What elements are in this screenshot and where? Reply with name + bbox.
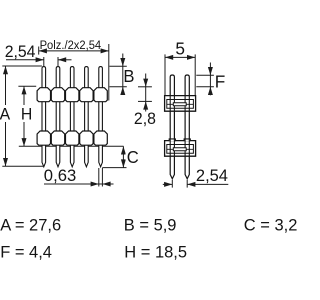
svg-text:B = 5,9: B = 5,9 [124,215,177,234]
dimension 2,54 side: extension lines [171,180,173,188]
svg-text:B: B [123,67,134,86]
dimension 0,63: dimension line with outside arrows [44,183,114,185]
insulator body bottom row #1 [37,131,50,145]
insulator body top row #1 [37,88,50,102]
insulator body top row #4 [80,88,93,102]
svg-text:A: A [0,105,10,124]
dimension 2,54 side: dimension line with outside arrows [163,183,173,185]
insulator body upper (side view) [165,96,196,112]
dimension H: extension line top (body top level) [18,85,36,87]
svg-text:F = 4,4: F = 4,4 [0,242,52,261]
dimension B: dimension line with outside arrows [122,54,124,94]
insulator body lower (side view) [165,141,196,157]
left figure: dual-row pin header front view [19,67,124,167]
insulator body bottom row #2 [51,131,64,145]
pin 2 (side view) [185,75,189,179]
dimension 2,8: extension line bottom [138,100,152,102]
pin 5 (left view) [99,67,103,167]
dimension A: dimension line with arrows [5,66,7,166]
insulator body bottom row #3 [66,131,79,145]
dimension Polz./2x2,54: dimension line with inside arrows [39,50,109,52]
svg-text:C: C [127,148,139,167]
pin collars on lower body top [169,139,175,141]
dimension C: dimension line with inside arrows [122,146,124,167]
insulator body top row #3 [66,88,79,102]
dimension C: label [126,149,140,165]
svg-text:C = 3,2: C = 3,2 [244,215,298,234]
dimension H: extension line bottom, continuous under lower body row [19,145,124,147]
svg-text:Polz./2x2,54: Polz./2x2,54 [40,39,102,53]
svg-text:H: H [21,105,32,124]
dimension 2,8: dimension line with outside arrows [145,74,147,112]
dimension 2,8: extension line top [138,86,152,88]
svg-text:F: F [215,71,226,91]
pin 2 (left view) [56,67,60,167]
pin 3 (left view) [70,67,74,167]
svg-text:2,8: 2,8 [134,110,156,129]
dimension F: dimension line with outside arrows [209,63,211,96]
dimension 2,54 pitch: extension stubs [43,57,45,67]
pin 4 (left view) [85,67,89,167]
svg-text:2,54: 2,54 [5,43,36,62]
dimension A: extension line bottom [2,165,43,167]
svg-text:A = 27,6: A = 27,6 [0,215,61,234]
dimension H: dimension line with arrows [23,86,25,146]
insulator body bottom row #4 [80,131,93,145]
svg-text:H = 18,5: H = 18,5 [124,242,187,261]
dimension B: extension line bottom [109,86,126,88]
pin 1 (left view) [42,67,46,167]
dimension F: extension line bottom [196,86,214,88]
dimension H: label [20,105,33,122]
pin 1 (side view) [170,75,174,179]
dimension 0,63: extension lines from pin tip [98,168,100,187]
dimension 5: extension lines [164,54,166,95]
svg-text:0,63: 0,63 [44,166,76,185]
dimension 2,54 pitch: dimension line with outside arrows [6,59,44,61]
insulator body top row #5 [94,88,107,102]
dimension 5: dimension line with inside arrows [165,56,195,58]
dimension A: label [0,105,11,122]
insulator body bottom row #5 [94,131,107,145]
dimension C: extension line at pin tip [102,167,126,169]
dimension B: extension line top [109,65,126,67]
dimension Polz./2x2,54: extension stub left [38,47,40,55]
dimension F: extension line top [196,74,214,76]
svg-text:5: 5 [175,38,185,58]
insulator body top row #2 [51,88,64,102]
svg-text:2,54: 2,54 [196,166,228,185]
dimension A: extension line top [2,65,42,67]
dimension Polz./2x2,54: extension line right (long) [108,44,110,101]
